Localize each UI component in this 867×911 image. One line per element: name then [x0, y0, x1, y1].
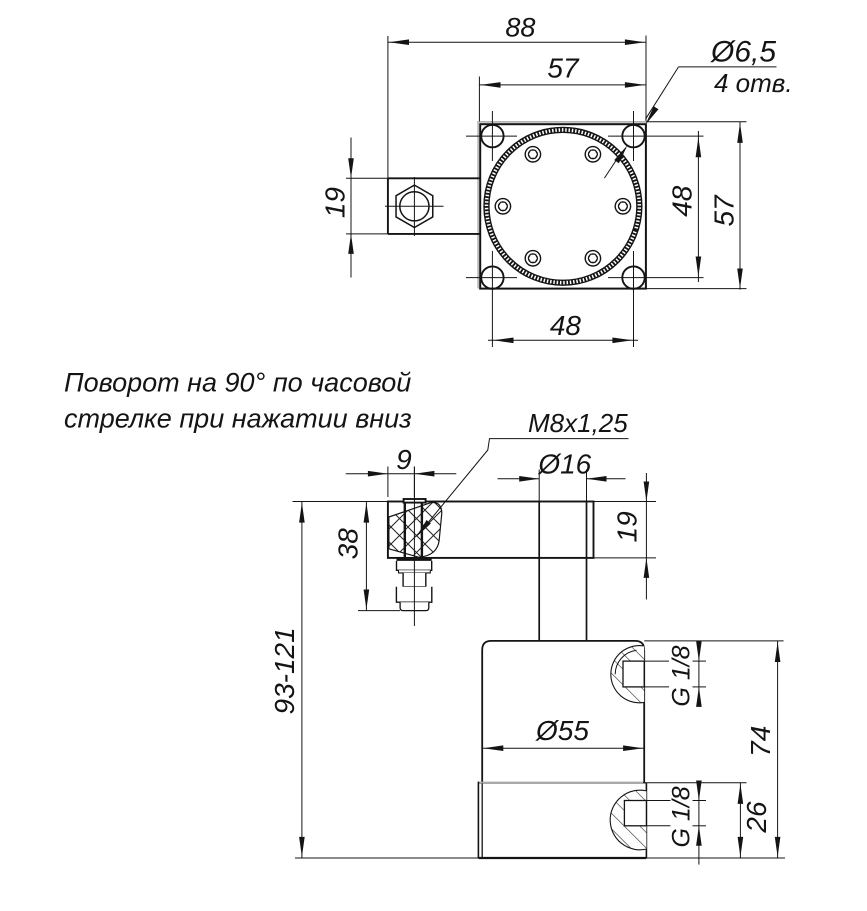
svg-text:Ø55: Ø55 [535, 715, 589, 746]
clamp screw shank [405, 503, 422, 559]
svg-text:Ø16: Ø16 [537, 449, 591, 480]
svg-text:G 1/8: G 1/8 [668, 786, 696, 847]
dimension 93-121 [299, 502, 305, 859]
dimension 74 [775, 641, 781, 858]
leader for hole callout [643, 67, 776, 126]
svg-text:57: 57 [709, 194, 740, 227]
side bracket with hex nut [346, 178, 480, 234]
svg-text:стрелке при нажатии вниз: стрелке при нажатии вниз [64, 404, 412, 434]
socket screw at 120deg [525, 147, 540, 162]
svg-text:19: 19 [320, 187, 351, 218]
socket screw at 180deg [495, 199, 510, 214]
dimension 9 [346, 467, 457, 498]
socket screw at 300deg [585, 251, 600, 266]
knurled ring (rotary body seen through) [467, 110, 660, 303]
dimension 48 right vertical [696, 131, 702, 282]
svg-text:57: 57 [547, 53, 580, 84]
svg-text:9: 9 [396, 444, 412, 475]
clamp arm [293, 502, 657, 558]
dimension 57 right vertical [646, 122, 747, 290]
dimension 19 arm [644, 473, 650, 600]
lower G1/8 port [610, 790, 646, 850]
leader arrow from inside [604, 143, 630, 178]
flange body top view: square plate [478, 121, 646, 289]
dimension d55 [482, 745, 644, 751]
svg-text:19: 19 [612, 511, 643, 542]
screw nut stack below arm [396, 560, 431, 611]
dimension 48 bottom [488, 338, 638, 344]
baseline extensions [295, 783, 785, 858]
mounting hole top-left [466, 111, 517, 161]
svg-text:48: 48 [550, 310, 582, 341]
svg-text:74: 74 [745, 726, 776, 757]
socket screw at 0deg [615, 199, 630, 214]
svg-text:88: 88 [505, 13, 535, 43]
upper G1/8 port [611, 646, 644, 703]
hex nut [385, 177, 444, 236]
dimension 38 [358, 502, 400, 611]
mounting hole top-right [608, 111, 704, 161]
clamp screw head [404, 499, 426, 503]
cylinder body [482, 641, 644, 783]
socket screw at 60deg [585, 147, 600, 162]
socket screw at 240deg [525, 251, 540, 266]
dimension 88 [388, 36, 646, 179]
dimension 57 top [479, 77, 646, 122]
upper G1/8 dimension [696, 641, 702, 707]
svg-text:26: 26 [741, 801, 772, 834]
upper port extension lines [644, 661, 706, 687]
svg-text:M8x1,25: M8x1,25 [528, 408, 628, 438]
piston rod [539, 502, 586, 641]
dimension 19 left vertical [348, 138, 354, 278]
svg-text:Поворот на 90° по часовой: Поворот на 90° по часовой [64, 368, 411, 398]
cam clamp mechanism [389, 503, 442, 558]
dimension d16 [498, 470, 626, 502]
mounting hole bottom-right [608, 251, 704, 347]
svg-text:38: 38 [333, 528, 364, 560]
svg-text:G 1/8: G 1/8 [668, 645, 696, 706]
lower port extension lines [646, 801, 706, 826]
cylinder top extension line [644, 640, 783, 642]
dimension 26 [738, 783, 744, 858]
mounting hole bottom-left [466, 251, 517, 347]
screw axis centerline [413, 467, 415, 627]
lower G1/8 dimension [696, 781, 702, 865]
svg-text:93-121: 93-121 [269, 627, 300, 714]
svg-text:Ø6,5: Ø6,5 [710, 36, 776, 69]
lower flange of cylinder [478, 782, 646, 858]
leader M8x1,25 [414, 439, 629, 539]
svg-text:48: 48 [667, 185, 698, 217]
svg-text:4 отв.: 4 отв. [714, 68, 793, 98]
